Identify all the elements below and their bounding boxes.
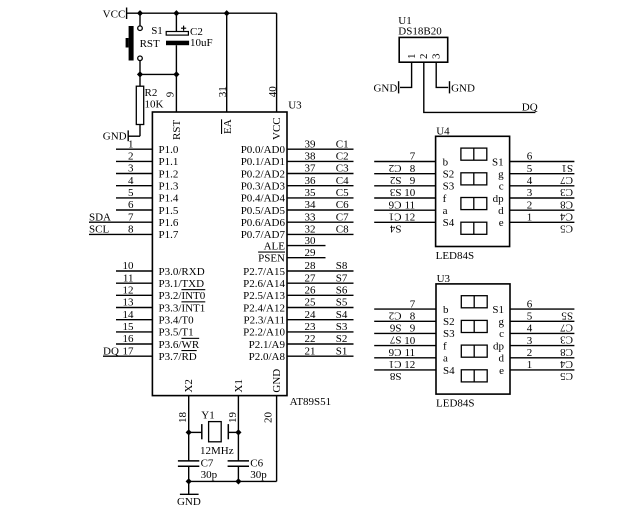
wire pin 10 (P3.0/RXD) [116,270,152,272]
wire U3 pin 4 [510,332,574,334]
svg-text:35: 35 [305,187,317,199]
svg-text:12: 12 [404,212,415,224]
svg-text:P2.5/A13: P2.5/A13 [243,290,285,302]
svg-text:17: 17 [123,345,135,357]
svg-text:C3: C3 [336,163,349,175]
svg-text:21: 21 [305,345,316,357]
svg-text:P3.5/T1: P3.5/T1 [159,327,194,339]
svg-text:S2: S2 [336,333,348,345]
junction [235,478,241,484]
svg-text:S3: S3 [389,186,401,198]
svg-text:12: 12 [123,285,134,297]
svg-text:10uF: 10uF [190,37,213,49]
wire pin 39 (P0.0/AD0) [287,148,354,150]
svg-text:6: 6 [527,298,533,310]
LED segment indicator U3 #2 [461,320,487,332]
svg-text:S1: S1 [151,25,163,37]
svg-text:P0.6/AD6: P0.6/AD6 [241,217,286,229]
wire pin 18 below C7 [188,466,190,481]
junction [235,429,241,435]
wire pin 31 [226,13,228,112]
svg-text:C5: C5 [336,187,349,199]
svg-text:5: 5 [527,311,533,323]
svg-text:2: 2 [527,199,533,211]
svg-text:LED84S: LED84S [436,398,475,410]
svg-text:15: 15 [123,321,135,333]
wire pin 34 (P0.5/AD5) [287,209,354,211]
svg-text:R2: R2 [145,87,158,99]
wire U3 pin 8 [374,320,436,322]
svg-text:P3.1/TXD: P3.1/TXD [159,278,205,290]
svg-text:C6: C6 [250,458,263,470]
svg-text:C5: C5 [560,370,573,382]
svg-text:14: 14 [123,309,135,321]
wire pin 2 (P1.1) [116,160,152,162]
junction [137,71,143,77]
svg-text:b: b [443,304,449,316]
svg-text:C3: C3 [560,186,573,198]
svg-text:C3: C3 [560,334,573,346]
wire pin 1 (P1.0) [116,148,152,150]
svg-text:P0.5/AD5: P0.5/AD5 [241,205,286,217]
wire U1 pin3 to GND [436,62,448,87]
svg-text:U4: U4 [436,125,450,137]
svg-text:P0.2/AD2: P0.2/AD2 [241,168,285,180]
svg-text:10: 10 [404,187,416,199]
svg-text:C8: C8 [560,346,573,358]
svg-text:d: d [498,205,504,217]
svg-text:DS18B20: DS18B20 [398,26,442,38]
svg-text:3: 3 [128,163,134,175]
svg-text:C2: C2 [190,26,203,38]
svg-text:C2: C2 [389,309,402,321]
wire pin 36 (P0.3/AD3) [287,185,354,187]
svg-text:26: 26 [305,285,317,297]
svg-text:27: 27 [305,272,317,284]
wire pin 30 (ALE) [287,245,326,247]
wire U4 pin 6 [510,161,575,163]
capacitor C7 30p [178,461,199,466]
svg-text:P2.4/A12: P2.4/A12 [243,302,285,314]
svg-text:29: 29 [305,247,317,259]
pushbutton S1 (RST) [126,13,143,74]
wire U3 pin 3 [510,345,574,347]
svg-text:40: 40 [267,86,279,98]
junction [173,71,179,77]
wire U4 pin 4 [510,185,575,187]
svg-text:ALE: ALE [264,240,286,252]
wire pin 15 (P3.5/T1) [116,331,152,333]
wire pin 27 (P2.6/A14) [287,282,354,284]
svg-text:S1: S1 [336,345,348,357]
svg-text:C7: C7 [560,174,573,186]
svg-text:P0.4/AD4: P0.4/AD4 [241,193,286,205]
svg-text:C6: C6 [388,198,401,210]
svg-text:S6: S6 [336,285,348,297]
svg-text:P0.7/AD7: P0.7/AD7 [241,229,286,241]
svg-text:25: 25 [305,297,317,309]
wire VCC rail [127,12,277,14]
wire pin 6 (P1.5) [116,209,152,211]
svg-text:S3: S3 [443,181,455,193]
svg-text:1: 1 [527,212,533,224]
display U3 LED84S body [436,284,510,394]
wire pin 7 (P1.6) [89,221,152,223]
svg-text:6: 6 [527,151,533,163]
svg-text:5: 5 [128,187,134,199]
power port GND (U1 pin3) [449,81,451,93]
svg-text:P3.4/T0: P3.4/T0 [159,315,195,327]
svg-text:C4: C4 [560,211,573,223]
wire U3 pin 2 [510,357,574,359]
svg-text:a: a [443,205,448,217]
svg-text:S2: S2 [443,169,455,181]
svg-text:9: 9 [410,175,416,187]
wire pin 38 (P0.1/AD1) [287,160,354,162]
svg-text:dp: dp [493,193,505,205]
wire U4 pin 8 [374,173,435,175]
wire U1 pin1 to GND [400,62,412,87]
svg-text:16: 16 [123,333,135,345]
wire pin 23 (P2.2/A10) [287,331,354,333]
wire pin 29 (PSEN) [287,257,326,259]
svg-text:P1.3: P1.3 [159,181,179,193]
wire U3 pin 12 [374,369,436,371]
junction [186,429,192,435]
power port GND (bottom) [180,481,199,494]
junction [173,10,179,16]
svg-text:S5: S5 [561,309,573,321]
svg-text:P3.0/RXD: P3.0/RXD [159,266,205,278]
wire U4 pin 11 [374,209,435,211]
svg-text:S2: S2 [443,316,455,328]
svg-text:C7: C7 [336,211,349,223]
IC U3 AT89S51 body [152,112,287,396]
wire U4 pin 3 [510,197,575,199]
svg-text:20: 20 [263,412,275,424]
wire pin 19 below C6 [237,466,239,481]
svg-text:C8: C8 [560,198,573,210]
svg-text:GND: GND [271,369,283,393]
svg-text:C1: C1 [336,138,349,150]
wire U4 pin 2 [510,209,575,211]
svg-text:GND: GND [103,131,127,143]
svg-text:C6: C6 [388,346,401,358]
svg-text:X1: X1 [233,379,245,392]
svg-text:18: 18 [177,412,189,424]
svg-text:X2: X2 [183,379,195,392]
svg-text:3: 3 [527,335,533,347]
svg-text:f: f [443,193,447,205]
svg-text:1: 1 [128,138,134,150]
svg-text:5: 5 [527,163,533,175]
svg-text:b: b [443,156,449,168]
svg-text:e: e [499,365,504,377]
wire pin 33 (P0.6/AD6) [287,221,354,223]
svg-text:4: 4 [527,323,533,335]
svg-text:S4: S4 [389,223,401,235]
svg-text:AT89S51: AT89S51 [290,396,332,408]
svg-text:S1: S1 [561,162,573,174]
svg-text:37: 37 [305,163,317,175]
wire U3 pin 7 [374,308,436,310]
svg-text:f: f [443,340,447,352]
display U4 LED84S body [436,136,510,246]
svg-text:19: 19 [227,412,239,424]
svg-text:SCL: SCL [89,224,109,236]
svg-text:d: d [499,353,505,365]
wire pin 21 (P2.0/A8) [287,355,354,357]
svg-text:P1.0: P1.0 [159,144,179,156]
svg-text:VCC: VCC [271,117,283,140]
svg-text:8: 8 [410,311,416,323]
svg-text:22: 22 [305,333,316,345]
wire U4 pin 9 [374,185,435,187]
svg-text:4: 4 [527,175,533,187]
svg-text:P3.7/RD: P3.7/RD [159,351,197,363]
sensor U1 DS18B20 body [399,37,448,62]
wire pin 17 (P3.7/RD) [103,355,152,357]
svg-text:S8: S8 [336,260,348,272]
wire pin 25 (P2.4/A12) [287,307,354,309]
svg-text:28: 28 [305,260,317,272]
resistor R2 10K [136,74,143,136]
svg-text:PSEN: PSEN [258,253,285,265]
svg-text:S8: S8 [389,370,401,382]
svg-text:RST: RST [140,38,160,50]
wire pin 35 (P0.4/AD4) [287,197,354,199]
svg-text:S1: S1 [492,304,504,316]
svg-text:3: 3 [527,187,533,199]
svg-text:GND: GND [451,82,475,94]
svg-text:P1.7: P1.7 [159,229,179,241]
crystal Y1 12MHz [189,422,239,442]
svg-text:P1.6: P1.6 [159,217,179,229]
svg-text:7: 7 [128,211,134,223]
svg-text:30p: 30p [201,469,218,481]
svg-text:8: 8 [410,163,416,175]
wire pin 11 (P3.1/TXD) [116,282,152,284]
svg-text:34: 34 [305,199,317,211]
wire U3 pin 6 [510,308,574,310]
svg-text:32: 32 [305,224,316,236]
svg-text:C7: C7 [201,458,214,470]
svg-text:P2.7/A15: P2.7/A15 [243,266,285,278]
svg-text:38: 38 [305,151,317,163]
svg-text:7: 7 [410,298,416,310]
svg-text:P1.2: P1.2 [159,168,179,180]
svg-text:P2.0/A8: P2.0/A8 [249,351,286,363]
svg-text:10: 10 [404,335,416,347]
svg-text:EA: EA [222,119,234,134]
svg-text:C4: C4 [336,175,349,187]
wire pin 24 (P2.3/A11) [287,319,354,321]
svg-text:12MHz: 12MHz [200,445,234,457]
wire pin 4 (P1.3) [116,185,152,187]
wire U3 pin 10 [374,345,436,347]
svg-text:1: 1 [406,54,418,60]
svg-text:P1.5: P1.5 [159,205,179,217]
wire ground rail (bottom) [189,480,277,482]
junction [137,10,143,16]
svg-text:c: c [499,328,504,340]
svg-text:dp: dp [493,340,505,352]
wire U3 pin 1 [510,369,574,371]
LED segment indicator U4 #4 [461,222,487,234]
svg-text:P1.4: P1.4 [159,193,179,205]
wire reset junction row [140,73,176,75]
svg-text:C1: C1 [389,211,402,223]
svg-text:P0.1/AD1: P0.1/AD1 [241,156,285,168]
svg-text:13: 13 [123,297,135,309]
wire U1 pin2 DQ [424,62,536,112]
wire U3 pin 9 [374,332,436,334]
svg-text:23: 23 [305,321,317,333]
svg-text:11: 11 [405,199,416,211]
svg-text:39: 39 [305,138,317,150]
svg-text:9: 9 [165,91,177,97]
svg-text:C2: C2 [336,151,349,163]
svg-text:DQ: DQ [522,102,538,114]
svg-text:C1: C1 [389,358,402,370]
svg-text:12: 12 [404,359,415,371]
svg-text:36: 36 [305,175,317,187]
svg-text:RST: RST [171,120,183,140]
svg-text:U3: U3 [437,273,451,285]
svg-text:10K: 10K [145,99,164,111]
power port GND (reset) [128,130,140,141]
svg-text:31: 31 [217,86,229,97]
svg-text:P3.6/WR: P3.6/WR [159,339,200,351]
svg-text:30: 30 [305,235,317,247]
svg-text:11: 11 [123,272,134,284]
svg-text:S4: S4 [336,309,348,321]
svg-text:g: g [499,316,505,328]
svg-text:P0.0/AD0: P0.0/AD0 [241,144,286,156]
svg-text:GND: GND [373,82,397,94]
svg-text:P2.3/A11: P2.3/A11 [244,315,285,327]
svg-text:9: 9 [410,323,416,335]
svg-text:10: 10 [123,260,135,272]
svg-text:C8: C8 [336,224,349,236]
svg-text:S1: S1 [492,156,504,168]
wire pin 8 (P1.7) [89,233,152,235]
LED segment indicator U4 #3 [461,198,487,210]
svg-text:8: 8 [128,224,134,236]
svg-text:S3: S3 [336,321,348,333]
svg-text:DQ: DQ [103,345,119,357]
svg-text:S7: S7 [336,272,348,284]
svg-text:2: 2 [527,347,533,359]
LED segment indicator U4 #2 [461,173,487,185]
capacitor C2 (10uF electrolytic) [166,13,189,74]
svg-text:a: a [443,353,448,365]
svg-text:3: 3 [430,53,442,59]
power port GND (U1 pin1) [398,81,400,93]
svg-text:c: c [499,181,504,193]
LED segment indicator U3 #1 [461,296,487,308]
svg-text:11: 11 [405,347,416,359]
svg-text:S3: S3 [443,328,455,340]
wire pin 5 (P1.4) [116,197,152,199]
svg-text:P0.3/AD3: P0.3/AD3 [241,181,286,193]
svg-text:24: 24 [305,309,317,321]
wire pin 19 (X1) [237,396,239,461]
svg-text:C7: C7 [560,322,573,334]
svg-text:P3.3/INT1: P3.3/INT1 [159,302,206,314]
junction [186,478,192,484]
svg-text:P3.2/INT0: P3.2/INT0 [159,290,206,302]
svg-text:30p: 30p [250,469,267,481]
svg-text:C2: C2 [389,162,402,174]
svg-text:e: e [499,217,504,229]
svg-text:S5: S5 [336,297,348,309]
svg-text:C4: C4 [560,358,573,370]
wire pin 9 [175,74,177,112]
capacitor C6 30p [228,461,249,466]
svg-text:LED84S: LED84S [436,250,475,262]
wire U4 pin 10 [374,197,435,199]
wire pin 3 (P1.2) [116,173,152,175]
wire pin 28 (P2.7/A15) [287,270,354,272]
svg-text:S2: S2 [390,174,402,186]
wire pin 12 (P3.2/INT0) [116,294,152,296]
wire pin 40 [276,13,278,112]
LED segment indicator U3 #4 [461,370,487,382]
svg-text:S4: S4 [443,365,455,377]
wire pin 13 (P3.3/INT1) [116,307,152,309]
svg-text:Y1: Y1 [201,409,214,421]
svg-text:S4: S4 [443,217,455,229]
svg-text:6: 6 [128,199,134,211]
svg-text:C6: C6 [336,199,349,211]
svg-text:C5: C5 [560,223,573,235]
svg-text:U3: U3 [288,100,302,112]
svg-text:7: 7 [410,151,416,163]
svg-text:P2.6/A14: P2.6/A14 [243,278,285,290]
wire pin 16 (P3.6/WR) [116,343,152,345]
svg-text:2: 2 [128,151,134,163]
svg-text:P2.1/A9: P2.1/A9 [249,339,286,351]
wire pin 20 (GND) [276,396,278,482]
wire pin 26 (P2.5/A13) [287,294,354,296]
wire U4 pin 5 [510,173,575,175]
wire pin 22 (P2.1/A9) [287,343,354,345]
wire U3 pin 11 [374,357,436,359]
wire pin 32 (P0.7/AD7) [287,233,354,235]
svg-text:P1.1: P1.1 [159,156,179,168]
LED segment indicator U4 #1 [461,148,487,160]
svg-text:4: 4 [128,175,134,187]
svg-text:VCC: VCC [103,9,126,21]
svg-text:33: 33 [305,211,317,223]
svg-text:SDA: SDA [89,211,111,223]
svg-text:S7: S7 [389,334,401,346]
wire U4 pin 7 [374,161,435,163]
svg-text:g: g [498,169,504,181]
wire pin 14 (P3.4/T0) [116,319,152,321]
svg-text:S6: S6 [389,322,401,334]
svg-text:GND: GND [177,496,201,508]
wire U4 pin 1 [510,221,575,223]
junction [224,10,230,16]
wire pin 18 (X2) [188,396,190,461]
LED segment indicator U3 #3 [461,345,487,357]
wire U3 pin 5 [510,320,574,322]
wire pin 37 (P0.2/AD2) [287,173,354,175]
svg-text:P2.2/A10: P2.2/A10 [243,327,285,339]
wire U4 pin 12 [374,221,435,223]
